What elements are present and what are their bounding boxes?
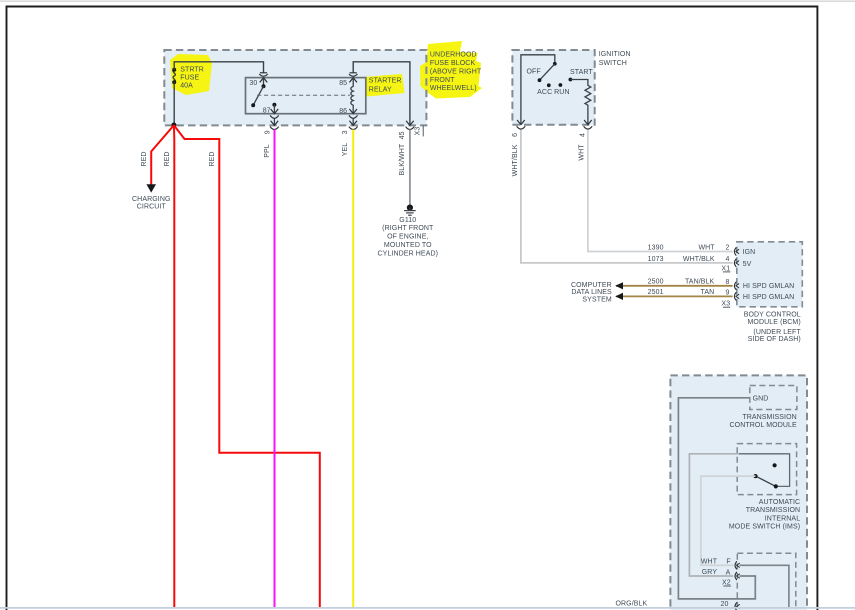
wire fuse bottom to junction (173, 82, 175, 125)
TAN wire circuit 2501 (616, 295, 733, 297)
svg-text:HI SPD GMLAN: HI SPD GMLAN (743, 294, 794, 301)
ground G110 (407, 205, 413, 211)
svg-text:40A: 40A (180, 82, 193, 89)
svg-text:(RIGHT FRONT: (RIGHT FRONT (382, 225, 434, 232)
svg-text:ORG/BLK: ORG/BLK (615, 601, 647, 608)
connector at relay pin 30 (260, 72, 267, 74)
X2 connector box (737, 553, 796, 610)
relay contact 87 (272, 103, 276, 107)
svg-text:BODY CONTROL: BODY CONTROL (744, 312, 801, 319)
svg-text:AUTOMATIC: AUTOMATIC (759, 499, 800, 506)
svg-text:MODULE (BCM): MODULE (BCM) (747, 319, 800, 326)
X2 pin F connector (735, 561, 737, 569)
svg-text:CONTROL MODULE: CONTROL MODULE (730, 422, 797, 429)
red wire to charging circuit (151, 125, 174, 185)
svg-text:87: 87 (263, 107, 271, 114)
svg-text:RED: RED (209, 151, 216, 166)
WHT wire IMS to X2 pin F (701, 476, 756, 565)
svg-text:MODE SWITCH (IMS): MODE SWITCH (IMS) (729, 524, 800, 531)
ignition switch box (512, 50, 594, 125)
contact ACC (547, 83, 551, 87)
svg-text:FUSE: FUSE (180, 75, 199, 82)
svg-text:2500: 2500 (648, 279, 664, 286)
IMS switch box (737, 444, 796, 495)
svg-text:3: 3 (342, 130, 349, 134)
contact RUN (559, 83, 563, 87)
body control module box (737, 242, 803, 307)
connector at relay pin 85 (350, 72, 357, 74)
fuse block exit pin 45 (406, 121, 414, 126)
relay pin 86 arrow (349, 109, 357, 114)
svg-text:RED: RED (164, 151, 171, 166)
svg-text:GRY: GRY (702, 569, 718, 576)
IMS open contact (773, 463, 777, 467)
svg-text:TAN/BLK: TAN/BLK (685, 279, 715, 286)
svg-text:X3: X3 (415, 127, 422, 136)
relay pin 30 arrow (260, 78, 268, 83)
svg-text:X3: X3 (721, 301, 730, 308)
svg-text:20: 20 (721, 601, 729, 608)
BCM pin 8 connector (734, 282, 736, 290)
IMS switch arm (756, 476, 776, 486)
svg-text:MOUNTED TO: MOUNTED TO (384, 242, 432, 249)
BCM pin 4 connector (734, 259, 736, 267)
resistor to start terminal (570, 80, 590, 125)
highlight UNDERHOOD FUSE BLOCK note (420, 41, 482, 99)
GND wire to X2 pin A (678, 398, 755, 599)
relay actuator dashed link (257, 94, 350, 96)
relay pin 87 arrow (271, 109, 279, 114)
svg-text:WHT: WHT (579, 144, 586, 161)
svg-text:(ABOVE RIGHT: (ABOVE RIGHT (430, 68, 482, 75)
svg-text:WHEELWELL): WHEELWELL) (430, 85, 477, 92)
relay switch arm (253, 86, 263, 105)
svg-text:SIDE OF DASH): SIDE OF DASH) (748, 336, 801, 343)
charging circuit arrow (146, 184, 156, 192)
svg-text:FUSE BLOCK: FUSE BLOCK (430, 60, 476, 67)
svg-text:TRANSMISSION: TRANSMISSION (746, 507, 800, 514)
X2 pin F internal wire (740, 565, 789, 608)
svg-text:45: 45 (399, 131, 406, 139)
relay contact 30 (262, 84, 266, 88)
underhood fuse block box (164, 50, 426, 125)
svg-text:6: 6 (512, 133, 519, 137)
svg-text:X2: X2 (722, 579, 731, 586)
svg-text:COMPUTER: COMPUTER (571, 282, 612, 289)
fuse STRTR 40A (173, 70, 175, 82)
svg-text:1073: 1073 (648, 256, 664, 263)
BCM pin 2 connector (734, 247, 736, 255)
YEL wire (352, 130, 354, 608)
red wire 2 (to bottom) (173, 125, 175, 607)
svg-text:1390: 1390 (648, 244, 664, 251)
WHT/BLK wire circuit 1073 (521, 130, 733, 263)
svg-text:A: A (726, 569, 731, 576)
contact START (569, 78, 573, 82)
svg-text:FRONT: FRONT (430, 77, 455, 84)
page top edge line (0, 0, 855, 2)
svg-text:WHT/BLK: WHT/BLK (512, 144, 519, 176)
svg-text:STARTER: STARTER (369, 78, 402, 85)
svg-text:TAN: TAN (701, 289, 715, 296)
ignition switch internal wire (pin 6 side) (521, 55, 555, 125)
svg-text:STRTR: STRTR (180, 67, 204, 74)
svg-text:SYSTEM: SYSTEM (582, 296, 611, 303)
svg-text:8: 8 (726, 279, 730, 286)
svg-text:UNDERHOOD: UNDERHOOD (430, 51, 477, 58)
highlight STRTR FUSE 40A (170, 54, 212, 95)
svg-text:OFF: OFF (527, 69, 541, 76)
wire relay 85 rail to fuse block pin 45 (353, 62, 410, 125)
GRY wire IMS to X2 pin A (689, 454, 738, 576)
svg-text:HI SPD GMLAN: HI SPD GMLAN (743, 283, 794, 290)
svg-text:X1: X1 (721, 265, 730, 272)
wire fuse top rail to relay pin 30 (174, 62, 263, 73)
svg-text:9: 9 (265, 130, 272, 134)
svg-text:SWITCH: SWITCH (599, 60, 627, 67)
svg-text:CHARGING: CHARGING (132, 196, 171, 203)
svg-text:INTERNAL: INTERNAL (765, 515, 800, 522)
connector below relay pin 86 (349, 115, 358, 118)
relay coil (pin 85-86) (349, 78, 357, 83)
svg-text:WHT: WHT (701, 558, 718, 565)
svg-text:RED: RED (141, 151, 148, 166)
BLK/WHT wire to G110 (409, 130, 411, 206)
svg-text:GND: GND (753, 395, 769, 402)
svg-text:ACC: ACC (537, 89, 552, 96)
svg-text:TRANSMISSION: TRANSMISSION (742, 414, 796, 421)
red wire 3 (to bottom right) (174, 125, 320, 607)
svg-text:(UNDER LEFT: (UNDER LEFT (753, 329, 801, 336)
svg-text:86: 86 (339, 108, 347, 115)
PPL wire (274, 130, 276, 608)
svg-text:DATA LINES: DATA LINES (571, 289, 612, 296)
svg-text:G110: G110 (399, 217, 416, 224)
X2 pin 20 connector (735, 602, 737, 610)
svg-text:OF ENGINE,: OF ENGINE, (387, 234, 428, 241)
svg-text:PPL: PPL (264, 144, 271, 158)
svg-text:WHT/BLK: WHT/BLK (683, 256, 715, 263)
transmission control module outer box (670, 375, 807, 610)
page bottom edge line (0, 607, 855, 609)
TAN/BLK wire circuit 2500 (616, 285, 733, 287)
svg-text:2: 2 (726, 245, 730, 252)
svg-text:RELAY: RELAY (369, 86, 392, 93)
fuse block right border over highlight (425, 55, 427, 98)
svg-text:F: F (726, 559, 730, 566)
highlight STARTER RELAY (365, 74, 405, 97)
svg-text:IGNITION: IGNITION (599, 51, 631, 58)
svg-text:CIRCUIT: CIRCUIT (137, 203, 167, 210)
svg-text:YEL: YEL (342, 143, 349, 157)
svg-text:START: START (570, 69, 593, 76)
svg-text:IGN: IGN (743, 249, 756, 256)
svg-text:85: 85 (339, 80, 347, 87)
svg-text:BLK/WHT: BLK/WHT (399, 143, 406, 175)
svg-text:4: 4 (726, 256, 730, 263)
starter relay box (246, 78, 366, 114)
svg-text:WHT: WHT (698, 244, 715, 251)
TCM GND box (750, 386, 797, 410)
svg-text:5V: 5V (743, 261, 752, 268)
junction node (171, 123, 176, 128)
ignition pin 4 exit (584, 120, 592, 125)
svg-text:RUN: RUN (554, 89, 569, 96)
X2 pin A connector (735, 572, 737, 580)
svg-text:30: 30 (249, 80, 257, 87)
ignition switch arm (540, 64, 555, 80)
svg-text:CYLINDER HEAD): CYLINDER HEAD) (378, 251, 439, 258)
BCM pin 9 connector (734, 292, 736, 300)
connector below relay pin 87 (270, 115, 279, 118)
IMS switch frame (739, 454, 790, 487)
WHT wire circuit 1390 (588, 130, 733, 252)
svg-text:4: 4 (579, 133, 586, 137)
svg-text:2501: 2501 (648, 289, 664, 296)
svg-text:9: 9 (726, 289, 730, 296)
ignition pin 6 exit (517, 120, 525, 125)
